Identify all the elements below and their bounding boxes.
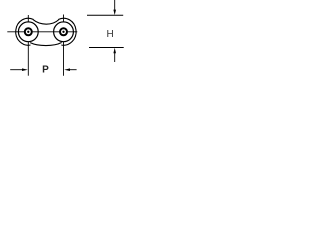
svg-text:P: P (42, 64, 49, 75)
svg-text:H: H (106, 29, 113, 40)
